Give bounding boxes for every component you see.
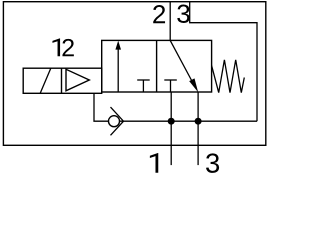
check valve (109, 107, 124, 135)
label 12 (52, 38, 73, 56)
junction node port 1 (168, 118, 175, 125)
blocked port 1 (right position) (164, 80, 177, 92)
blocked port 3 (left position) (137, 80, 150, 92)
flow arrow 1-2 (left position) (115, 41, 121, 92)
wire port 3 bottom (197, 92, 199, 165)
pilot supply wire (94, 93, 109, 121)
label 1 (150, 153, 158, 173)
junction node port 3 (195, 118, 202, 125)
spring (return) (212, 60, 245, 93)
solenoid with pilot Y1 (23, 68, 102, 93)
flow arrow 2-3 (right position) (170, 40, 198, 92)
wire port 2 to frame top (169, 2, 171, 41)
wire port 1 (170, 92, 172, 165)
valve body U1 (102, 40, 212, 92)
pilot triangle (66, 69, 89, 91)
label 3 bottom (206, 153, 219, 172)
pilot line to ports (119, 120, 257, 122)
label 3 top (177, 5, 189, 23)
label 2 (153, 5, 165, 23)
wire port 3 top routing (frame top, right side, down to pilot line) (190, 2, 257, 122)
